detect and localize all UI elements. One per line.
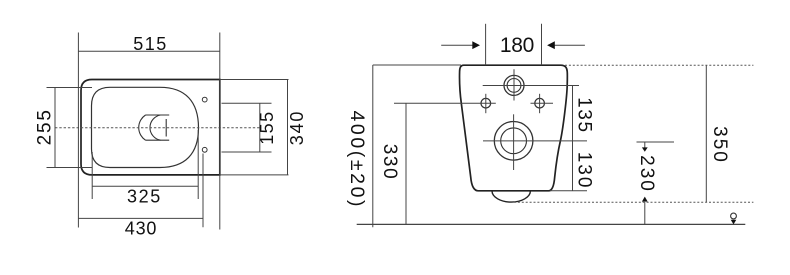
floor datum symbol arrow	[731, 220, 737, 225]
svg-text:350: 350	[709, 126, 730, 164]
svg-text:130: 130	[574, 152, 595, 190]
flush jet mark top line	[146, 114, 170, 116]
dim 515 right extension line	[219, 33, 221, 230]
svg-text:330: 330	[379, 144, 400, 181]
flush jet mark arc outer	[139, 115, 146, 140]
inlet crosshair horizontal	[483, 85, 579, 87]
dim 230 top reference line	[637, 141, 675, 143]
flush jet mark arc inner	[150, 115, 161, 140]
dim 180 right arrow line	[554, 44, 585, 46]
hinge hole bottom	[202, 147, 207, 152]
dim 180 right extension line	[541, 24, 543, 65]
fixing hole right crosshair vertical	[539, 94, 541, 113]
svg-text:180: 180	[500, 34, 534, 57]
svg-text:230: 230	[636, 155, 657, 193]
inlet crosshair vertical	[513, 69, 515, 100]
drain crosshair horizontal	[483, 140, 587, 142]
dim 515 left extension line	[77, 33, 79, 228]
fixing hole left crosshair vertical	[485, 94, 487, 113]
dim 400 top extension line	[373, 64, 461, 66]
dim 130 bottom extension line	[550, 190, 587, 192]
dim 230 bottom arrow stem	[644, 202, 646, 224]
dim 430 dimension line	[78, 217, 203, 219]
svg-text:400(±20): 400(±20)	[346, 110, 368, 209]
hinge hole top	[202, 97, 207, 102]
drain inner circle	[501, 128, 527, 154]
fixing holes crosshair horizontal right segment	[531, 102, 554, 104]
dim 255 bottom extension line	[47, 167, 93, 169]
fixing holes crosshair horizontal left segment	[394, 102, 496, 104]
dim 180 right arrow head	[547, 41, 555, 49]
dim 230 top arrow stem	[644, 142, 646, 148]
svg-text:155: 155	[257, 110, 277, 144]
dim 330 dimension line	[405, 103, 407, 224]
center line dashed (plan view)	[55, 127, 260, 129]
floor line	[357, 223, 746, 225]
svg-text:135: 135	[574, 97, 595, 134]
dim 255 top extension line	[47, 87, 93, 89]
body outline (rear view)	[460, 65, 568, 191]
dim 180 left arrow line	[441, 44, 473, 46]
dim 325 left extension line	[91, 152, 93, 199]
dim 180 left extension line	[485, 24, 487, 65]
dim 350 dimension line	[705, 65, 707, 202]
svg-text:430: 430	[125, 219, 157, 239]
water inlet inner circle	[507, 79, 521, 93]
dim 515 dimension line	[78, 50, 219, 52]
dim 230 bottom arrow head	[642, 197, 648, 202]
svg-text:325: 325	[127, 186, 162, 206]
pan outline (toilet plan view)	[81, 80, 220, 175]
dim 135-130 dimension line	[572, 86, 574, 191]
flush jet mark vertical line	[165, 119, 167, 137]
pan bottom edge extension line to 340 dim	[220, 174, 289, 176]
outlet bump under body	[492, 191, 530, 202]
fixing hole right	[535, 98, 545, 108]
dim 180 left arrow head	[472, 41, 480, 49]
water inlet outer circle	[504, 75, 524, 95]
dim 325 dimension line	[92, 185, 198, 187]
dim 430 right extension line	[202, 154, 204, 228]
dim 155 dimension line	[259, 103, 261, 152]
dim 350 bottom dotted reference line	[514, 201, 753, 203]
dim 155 top extension line	[222, 102, 272, 104]
dim 155 bottom extension line	[222, 151, 272, 153]
pan top edge extension line to 340 dim	[220, 79, 289, 81]
svg-text:255: 255	[35, 108, 56, 145]
dim 230 top arrow head	[642, 147, 648, 151]
fixing hole left	[481, 98, 491, 108]
drain outer circle	[494, 122, 533, 161]
dim 350 top dotted reference line	[565, 64, 753, 66]
dim 340 dimension line	[287, 80, 289, 175]
drain crosshair vertical	[513, 114, 515, 170]
svg-text:340: 340	[287, 110, 307, 145]
dim 255 dimension line	[54, 88, 56, 168]
seat opening outline	[92, 87, 199, 167]
dim 400 dimension line	[372, 65, 374, 227]
flush jet mark bottom line	[146, 139, 170, 141]
floor datum symbol circle	[731, 213, 737, 219]
svg-text:515: 515	[133, 34, 168, 54]
dim 325 right extension line	[197, 130, 199, 199]
